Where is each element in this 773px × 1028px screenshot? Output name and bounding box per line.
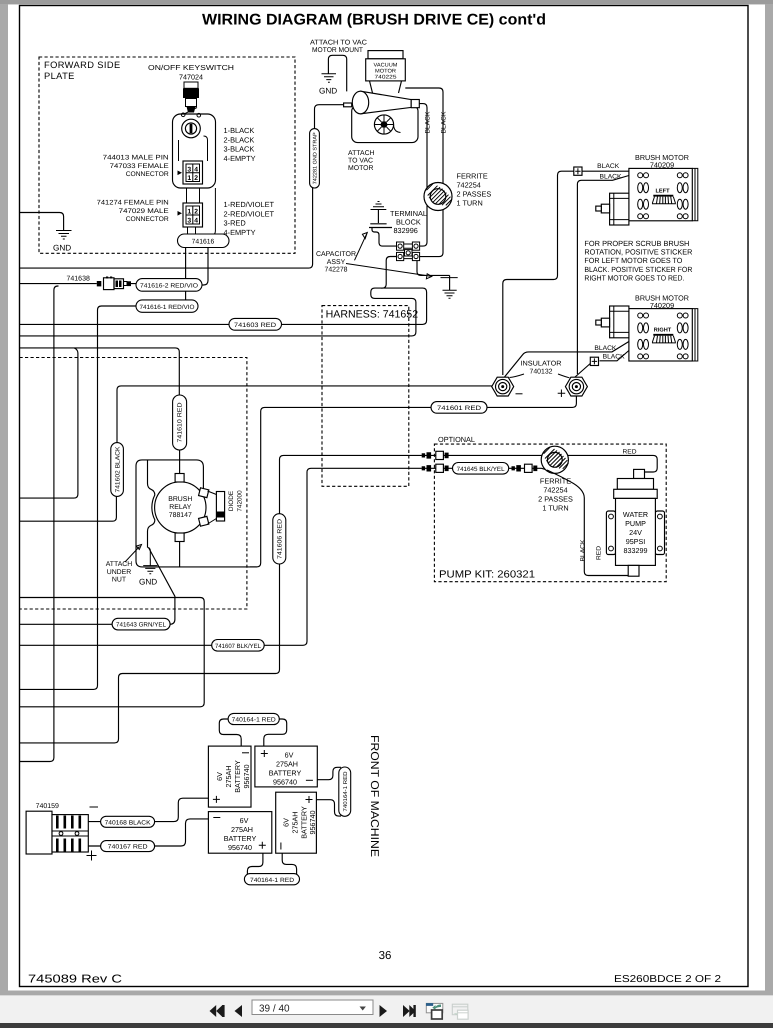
chassis ground (capacitor assy)	[441, 278, 458, 299]
svg-text:BLACK: BLACK	[594, 345, 617, 352]
battery B1 (rotated)	[208, 746, 251, 807]
svg-text:2: 2	[194, 209, 198, 216]
svg-text:745089 Rev C: 745089 Rev C	[28, 974, 122, 986]
svg-text:PUMP: PUMP	[625, 519, 646, 528]
dashed box pump kit (optional)	[434, 444, 666, 582]
svg-text:3: 3	[187, 218, 191, 225]
svg-text:3-BLACK: 3-BLACK	[224, 145, 255, 154]
svg-text:BLACK: BLACK	[597, 163, 620, 170]
svg-text:741601 RED: 741601 RED	[437, 405, 481, 412]
svg-text:RIGHT: RIGHT	[654, 328, 672, 334]
svg-text:BLACK: BLACK	[603, 353, 626, 360]
svg-text:WATER: WATER	[623, 510, 648, 519]
wire branch: 741638 down left col to frame y762 (U)	[20, 286, 59, 762]
svg-text:275AH: 275AH	[276, 759, 298, 768]
svg-text:275AH: 275AH	[224, 766, 233, 788]
wires keyhole to connector	[179, 136, 208, 161]
svg-text:CONNECTOR: CONNECTOR	[126, 216, 169, 223]
oval tag 742281 GND STRAP (vertical)	[310, 105, 344, 188]
harness label and dashed box	[322, 306, 418, 487]
svg-text:740168 BLACK: 740168 BLACK	[105, 819, 152, 826]
svg-text:742281 GND STRAP: 742281 GND STRAP	[312, 132, 318, 184]
wire: frame to gnd strap (742281)	[20, 188, 313, 268]
svg-text:2: 2	[194, 175, 198, 182]
svg-text:741603 RED: 741603 RED	[234, 322, 276, 329]
ground (vac mount)	[319, 74, 337, 96]
svg-text:ATTACH: ATTACH	[106, 561, 133, 568]
svg-text:1 TURN: 1 TURN	[457, 199, 483, 208]
wire frame y645 via 741607 tag to optional row B	[20, 644, 212, 646]
wire frame y597.5 to relay area down x204 to frame y707 (U)	[20, 598, 205, 707]
wire frame y521 up to 741602	[20, 496, 117, 521]
insulator stud (+)	[565, 377, 587, 396]
svg-text:6V: 6V	[240, 816, 249, 825]
svg-text:741643 GRN/YEL: 741643 GRN/YEL	[116, 622, 167, 629]
svg-text:BLACK: BLACK	[425, 111, 432, 134]
wire: frame to keyswitch GND	[20, 213, 64, 231]
oval tag 741601 RED	[431, 402, 487, 414]
svg-text:PUMP KIT: 260321: PUMP KIT: 260321	[439, 570, 535, 581]
oval tag 741603 RED	[229, 318, 282, 330]
svg-text:744013 MALE PIN: 744013 MALE PIN	[103, 155, 169, 162]
connector square M1	[574, 167, 582, 175]
wire gnd to vac mount	[328, 55, 346, 91]
svg-text:2-BLACK: 2-BLACK	[224, 135, 255, 144]
svg-text:GND: GND	[139, 578, 157, 587]
svg-text:741606 RED: 741606 RED	[277, 518, 284, 559]
wire 741603 RED from frame with wrap around harness label	[20, 323, 230, 325]
inline connectors row B with tag 741645 BLK/YEL	[422, 463, 547, 475]
svg-text:GND: GND	[53, 244, 71, 253]
svg-text:ATTACH TO VAC: ATTACH TO VAC	[310, 40, 367, 47]
relay left loop wire	[136, 460, 257, 567]
svg-text:741607 BLK/YEL: 741607 BLK/YEL	[215, 643, 262, 650]
connector X1 740159	[26, 811, 88, 854]
diode D1 742000	[216, 492, 224, 522]
svg-text:MOTOR MOUNT: MOTOR MOUNT	[312, 47, 364, 54]
oval tag 741610 RED (vertical)	[173, 395, 187, 450]
svg-text:741645 BLK/YEL: 741645 BLK/YEL	[457, 466, 506, 473]
wire 741601 RED from insulator (+)	[487, 396, 576, 407]
svg-text:4: 4	[194, 218, 198, 225]
svg-text:832996: 832996	[394, 226, 418, 235]
connector J2 (741274/747029)	[178, 203, 203, 234]
keyswitch S1 barrel	[181, 82, 200, 117]
plus mark X1	[87, 851, 97, 861]
svg-text:RED: RED	[623, 449, 638, 456]
svg-text:2-RED/VIOLET: 2-RED/VIOLET	[224, 209, 275, 218]
svg-text:1-RED/VIOLET: 1-RED/VIOLET	[224, 200, 275, 209]
svg-text:1-BLACK: 1-BLACK	[224, 126, 255, 135]
keyhole	[182, 119, 201, 138]
blower icon	[374, 115, 400, 134]
svg-text:MOTOR: MOTOR	[348, 165, 374, 172]
svg-text:4-EMPTY: 4-EMPTY	[224, 154, 256, 163]
svg-text:740164-1 RED: 740164-1 RED	[343, 772, 349, 812]
svg-text:275AH: 275AH	[231, 825, 253, 834]
svg-text:740164-1 RED: 740164-1 RED	[250, 877, 295, 884]
wire black V2 vac to terminal row2	[405, 88, 443, 257]
svg-text:FORWARD SIDE: FORWARD SIDE	[44, 60, 121, 70]
svg-text:741616-1 RED/VIO: 741616-1 RED/VIO	[140, 304, 195, 311]
relay coil wire with bumps	[148, 461, 155, 548]
viewer toolbar	[0, 995, 773, 1023]
svg-text:CONNECTOR: CONNECTOR	[126, 171, 169, 178]
svg-text:956740: 956740	[228, 843, 252, 852]
oval tag 741616	[178, 234, 230, 248]
svg-text:275AH: 275AH	[291, 812, 300, 834]
svg-text:TO VAC: TO VAC	[348, 158, 373, 165]
svg-text:742000: 742000	[237, 490, 244, 512]
ferrite FB1 742254	[424, 183, 452, 211]
svg-text:BRUSH: BRUSH	[168, 496, 192, 503]
ground GND (forward side plate)	[53, 231, 72, 253]
svg-text:740164-1 RED: 740164-1 RED	[232, 717, 277, 724]
svg-text:BATTERY: BATTERY	[224, 834, 257, 843]
svg-text:4: 4	[194, 167, 198, 174]
svg-text:BATTERY: BATTERY	[269, 768, 302, 777]
svg-text:741610 RED: 741610 RED	[177, 402, 184, 443]
svg-text:CAPACITOR: CAPACITOR	[316, 251, 356, 258]
svg-text:INSULATOR: INSULATOR	[521, 361, 562, 368]
battery B2	[255, 746, 317, 787]
wire relay bottom to loop	[179, 542, 181, 567]
svg-text:GND: GND	[319, 87, 337, 96]
svg-text:39 / 40: 39 / 40	[259, 1003, 290, 1014]
terminal block TB1 832996	[397, 242, 420, 261]
svg-text:ATTACH: ATTACH	[348, 150, 375, 157]
oval tag 741616-2 RED/VIO	[136, 248, 208, 300]
svg-text:788147: 788147	[169, 512, 192, 519]
wire frame y624 via 741643 tag up to relay gnd point	[20, 623, 113, 625]
keyswitch body	[173, 114, 216, 188]
svg-text:741274 FEMALE PIN: 741274 FEMALE PIN	[97, 200, 169, 207]
svg-text:833299: 833299	[624, 546, 648, 555]
svg-text:1: 1	[187, 175, 191, 182]
toolbar icon open in new window	[426, 1003, 443, 1019]
svg-text:747029 MALE: 747029 MALE	[119, 208, 170, 215]
svg-text:2 PASSES: 2 PASSES	[457, 190, 492, 199]
svg-text:6V: 6V	[285, 750, 294, 759]
wire 741610 to relay top	[179, 450, 181, 474]
svg-text:1: 1	[187, 209, 191, 216]
wire X1 to 740167 RED tag to battery B3	[88, 819, 208, 846]
motor M1 front housing	[610, 193, 629, 225]
suction horn	[344, 91, 420, 114]
svg-text:740132: 740132	[530, 368, 553, 375]
insulator stud (-)	[492, 377, 514, 396]
svg-text:956740: 956740	[273, 777, 297, 786]
wire RED ferrite to pump top	[568, 455, 657, 472]
svg-text:740225: 740225	[375, 75, 397, 81]
battery B3	[208, 812, 271, 854]
capacitor C1 with chassis ground	[369, 202, 397, 247]
brush relay K1 788147	[155, 474, 209, 542]
svg-text:956740: 956740	[242, 765, 251, 789]
svg-text:ES260BDCE 2 OF 2: ES260BDCE 2 OF 2	[614, 974, 722, 985]
note text FOR PROPER	[584, 239, 693, 282]
oval tag 741606 RED (vertical)	[273, 514, 286, 564]
arrow to chassis ground	[346, 264, 432, 279]
svg-text:BATTERY: BATTERY	[300, 806, 309, 839]
oval tag 741607 BLK/YEL	[212, 640, 265, 652]
svg-text:742278: 742278	[325, 267, 348, 274]
svg-text:6V: 6V	[215, 772, 224, 781]
svg-text:DIODE: DIODE	[228, 491, 235, 511]
svg-text:RIGHT MOTOR GOES TO RED.: RIGHT MOTOR GOES TO RED.	[584, 273, 684, 282]
wire 741606 vertical to optional row A	[280, 455, 422, 513]
water pump P1 833299	[606, 469, 664, 576]
svg-text:BLACK: BLACK	[580, 539, 587, 562]
inline connectors row A	[422, 451, 568, 459]
inline connector 741638	[97, 277, 131, 290]
svg-text:95PSI: 95PSI	[626, 537, 646, 546]
minus mark X1	[90, 806, 99, 808]
wire M1 black to right insulator (+)	[577, 176, 629, 375]
wire M2 black to left insulator (-)	[505, 342, 629, 378]
svg-text:WIRING DIAGRAM (BRUSH DRIVE CE: WIRING DIAGRAM (BRUSH DRIVE CE) cont'd	[202, 12, 546, 29]
oval tag 740164-1 RED (right, vertical)	[316, 767, 350, 816]
svg-text:1 TURN: 1 TURN	[542, 504, 568, 513]
svg-text:36: 36	[379, 950, 392, 962]
svg-text:956740: 956740	[308, 811, 317, 835]
svg-text:UNDER: UNDER	[107, 569, 132, 576]
wire M2 plus to right insulator (+)	[575, 351, 629, 378]
oval tag 740164-1 RED (bottom)	[244, 853, 299, 885]
svg-text:FERRITE: FERRITE	[540, 477, 571, 486]
svg-text:OPTIONAL: OPTIONAL	[438, 435, 475, 444]
dashed box FORWARD SIDE PLATE	[39, 57, 295, 253]
wire 741638 from frame	[20, 283, 137, 285]
arrow to capacitor	[355, 233, 368, 261]
svg-text:741638: 741638	[67, 276, 90, 283]
svg-text:742254: 742254	[543, 486, 567, 495]
svg-text:740167 RED: 740167 RED	[108, 844, 149, 851]
svg-text:742254: 742254	[457, 181, 481, 190]
svg-text:PLATE: PLATE	[44, 71, 75, 81]
svg-text:BLACK: BLACK	[600, 173, 623, 180]
svg-text:2 PASSES: 2 PASSES	[538, 495, 573, 504]
svg-text:NUT: NUT	[112, 577, 127, 584]
svg-text:6V: 6V	[282, 818, 291, 827]
svg-text:LEFT: LEFT	[656, 189, 671, 195]
wire terminal row2 to chassis ground right	[417, 261, 450, 290]
ferrite FB2 742254	[541, 446, 568, 473]
connector J1 (744013/747033)	[178, 161, 203, 184]
svg-text:ON/OFF KEYSWITCH: ON/OFF KEYSWITCH	[148, 63, 234, 72]
svg-text:24V: 24V	[629, 528, 642, 537]
wire M1 plus square to left insulator (-)	[503, 171, 629, 375]
wire X1 to 740168 BLACK tag to battery B1	[88, 798, 208, 821]
svg-text:ASSY: ASSY	[327, 259, 346, 266]
svg-text:3-RED: 3-RED	[224, 219, 246, 228]
oval tag 741616-1 RED/VIO	[136, 300, 198, 312]
svg-text:RELAY: RELAY	[169, 504, 191, 511]
oval tag 741602 BLACK (vertical)	[111, 386, 492, 497]
svg-text:740159: 740159	[36, 803, 59, 810]
dashed box lower-left	[20, 358, 247, 610]
svg-text:RED: RED	[596, 545, 603, 560]
toolbar icon open in new window (disabled)	[452, 1004, 468, 1019]
brush motor M1 (left) 740209	[596, 153, 698, 225]
wires body to connector J2	[187, 188, 216, 235]
wires relay to diode	[208, 491, 217, 524]
wire frame y743 up x118.5 right y673.5 to 741606 vertical	[20, 564, 280, 743]
oval tag 741643 GRN/YEL	[112, 618, 170, 630]
svg-text:FERRITE: FERRITE	[457, 172, 488, 181]
connector square M2	[590, 357, 598, 365]
wire 741616-1 from frame U via x97.5	[20, 306, 137, 689]
svg-text:741616: 741616	[192, 239, 215, 246]
svg-text:4-EMPTY: 4-EMPTY	[224, 228, 256, 237]
svg-text:741616-2 RED/VIO: 741616-2 RED/VIO	[140, 283, 198, 290]
brush motor M2 (right) 740209	[596, 293, 698, 361]
svg-text:HARNESS: 741652: HARNESS: 741652	[326, 309, 419, 321]
battery B4 (rotated)	[276, 792, 318, 853]
svg-text:747024: 747024	[179, 73, 203, 82]
wire terminal row2-left to harness wrap	[381, 257, 397, 289]
wire branch down to frame y498 (U)	[20, 348, 78, 498]
blower housing	[352, 105, 418, 142]
minus sign	[516, 393, 523, 395]
svg-text:741602 BLACK: 741602 BLACK	[115, 446, 122, 493]
wire BLACK ferrite to pump bottom	[547, 470, 628, 576]
wire black V1 vac to terminal row1	[419, 104, 427, 247]
motor M2 front housing	[610, 306, 629, 338]
oval tag 740164-1 RED (top)	[219, 713, 286, 746]
svg-text:BLACK: BLACK	[441, 111, 448, 134]
svg-text:BATTERY: BATTERY	[233, 760, 242, 793]
plus sign	[558, 390, 566, 398]
ground (relay, attach under nut)	[139, 548, 157, 587]
wire frame to 741610/relay	[20, 348, 180, 395]
svg-text:3: 3	[187, 167, 191, 174]
vacuum motor VM1 740225	[366, 51, 406, 93]
svg-text:FRONT OF MACHINE: FRONT OF MACHINE	[368, 735, 380, 857]
svg-text:747033 FEMALE: 747033 FEMALE	[110, 163, 170, 170]
